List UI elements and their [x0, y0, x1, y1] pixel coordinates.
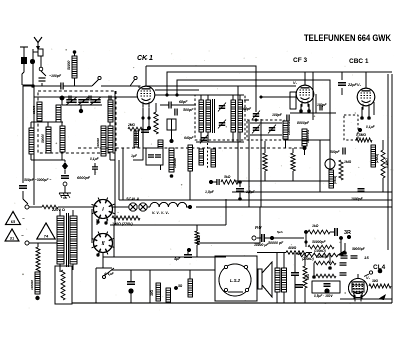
fuse resistor — [42, 205, 58, 209]
wire det down — [304, 146, 306, 155]
resistor 100k CL4a — [314, 255, 336, 265]
svg-text:50000 pF: 50000 pF — [268, 241, 284, 245]
label 0.4uF — [90, 157, 100, 175]
wire x150 bottom — [149, 270, 151, 303]
node CL4 b — [312, 275, 316, 279]
node below grid cap — [170, 139, 174, 143]
resistor CL4 b — [316, 274, 336, 278]
arrow CL4 — [378, 294, 386, 300]
node 1.5uF — [238, 180, 242, 201]
svg-text:500pF: 500pF — [330, 150, 341, 154]
scale lamp 2 — [139, 203, 147, 211]
label 0.5uF — [314, 294, 333, 298]
LS2 terminal a — [224, 265, 227, 268]
wire x115 tuner drop — [114, 91, 116, 160]
wire CF3 grid — [260, 92, 297, 109]
cap OPT b — [295, 285, 303, 287]
resistor 5k right — [329, 170, 337, 188]
node CK1 cathode — [147, 126, 151, 130]
node midb — [170, 174, 174, 178]
wire lamp mid — [147, 206, 150, 208]
wire 68pF leads — [160, 104, 196, 106]
wire CK1 bottom mesh — [133, 138, 143, 160]
node trimmer junction — [79, 105, 83, 113]
title TELEFUNKEN 664GWK — [304, 33, 391, 43]
loop left wire — [114, 91, 123, 257]
svg-text:(200kΩ): (200kΩ) — [302, 257, 314, 261]
svg-text:50000: 50000 — [32, 105, 36, 114]
svg-text:L.S.2: L.S.2 — [230, 278, 241, 283]
wire vertical x249 — [248, 120, 250, 207]
node antenna blob — [30, 59, 35, 64]
heater chain coil — [150, 202, 187, 207]
osc trimmer — [200, 135, 208, 144]
wire bottom y270 — [112, 269, 150, 271]
tuner coil R top — [108, 100, 113, 122]
cap 1.5uF a — [205, 189, 256, 194]
series cap 100pF — [61, 83, 63, 90]
svg-text:5kΩ: 5kΩ — [224, 175, 231, 179]
resistor 2M vertical — [371, 145, 379, 167]
label V4 — [366, 276, 371, 280]
svg-text:5μA: 5μA — [277, 230, 283, 234]
svg-text:~: ~ — [22, 216, 25, 221]
rail y200 main — [119, 199, 392, 201]
svg-text:3R: 3R — [344, 230, 351, 236]
IF2 dashed box — [247, 120, 284, 140]
paper speckle texture — [11, 46, 396, 311]
node tuner blob — [60, 96, 65, 101]
wire det coil leads — [285, 139, 287, 148]
wire IF1 top leads — [201, 95, 240, 100]
LS2 terminal b — [244, 265, 247, 268]
label 220V — [51, 208, 65, 212]
bottom bus y303 — [72, 302, 392, 304]
padder cap 6000pF — [61, 176, 91, 180]
wafer switch I — [91, 197, 114, 220]
cap 68pF — [169, 100, 188, 109]
node mixer diamond — [62, 160, 68, 170]
trimmer 68pF mid — [243, 107, 260, 120]
detector coil 150000 — [283, 121, 291, 139]
PU terminal — [252, 236, 256, 240]
IF1 secondary winding — [206, 100, 211, 132]
wire IF1 to CF3 grid — [244, 99, 249, 101]
svg-text:1MΩ: 1MΩ — [344, 160, 352, 164]
switch diag bottom — [103, 268, 115, 279]
label 50000pF spk — [268, 241, 284, 245]
power transformer secondary — [70, 216, 77, 264]
warning triangle 74 — [37, 223, 55, 239]
node bottom — [174, 286, 178, 290]
resistor 200k row — [298, 253, 338, 261]
osc pack winding A — [188, 145, 193, 171]
node det — [303, 146, 307, 150]
rect resistor 1k — [195, 225, 201, 257]
wire L4 bottom — [61, 152, 63, 160]
wire OPT leads — [277, 253, 284, 303]
speaker cone horn — [262, 262, 272, 297]
cap 4uF — [173, 248, 192, 261]
wire IF2 rail — [250, 123, 282, 135]
svg-text:50000pF: 50000pF — [312, 240, 326, 244]
label 50000pF row — [352, 247, 366, 251]
label 3R — [344, 230, 351, 236]
wire mains to switch — [58, 206, 93, 208]
label 0,1uF — [366, 125, 376, 129]
svg-text:30Ω: 30Ω — [372, 279, 379, 283]
svg-text:V₁ V₂ V₃ V₄: V₁ V₂ V₃ V₄ — [152, 211, 170, 215]
label 2xx — [277, 230, 283, 234]
svg-text:500000Ω: 500000Ω — [306, 129, 310, 143]
svg-text:V₄: V₄ — [366, 276, 371, 280]
wire diamond to cap — [64, 170, 66, 174]
wire L2 bottom — [31, 154, 65, 160]
cap 500pF — [175, 108, 194, 116]
IF1 trimmer top — [218, 103, 226, 112]
node PU — [264, 236, 274, 240]
resistor 0.5M right — [356, 133, 372, 142]
IF1 primary winding — [199, 100, 204, 132]
resistor CL4 out — [369, 279, 391, 288]
osc pack winding B — [199, 149, 204, 165]
loop top wire — [110, 224, 226, 226]
power transformer primary — [57, 216, 64, 264]
label 100pF — [49, 74, 62, 78]
svg-text:SCALA: SCALA — [126, 197, 139, 201]
ballast box — [55, 266, 72, 304]
cap row a — [341, 256, 348, 258]
node right a — [358, 128, 362, 132]
svg-text:2MΩ: 2MΩ — [127, 123, 135, 127]
speaker cone bar — [258, 269, 262, 289]
svg-text:50000pF: 50000pF — [316, 255, 330, 259]
trimmer pair B — [78, 97, 89, 105]
dropper wire zig — [36, 243, 40, 272]
wire x119 drop — [118, 160, 120, 200]
svg-text:0,5μF · 150V: 0,5μF · 150V — [314, 294, 333, 298]
label V1 — [138, 85, 143, 89]
svg-text:P.U: P.U — [255, 225, 262, 230]
node x261 top — [255, 119, 258, 122]
electrolytic 1 — [127, 270, 135, 303]
grid bus y86 — [34, 85, 140, 87]
resistor 4k mid — [263, 141, 267, 181]
cap 100000 CK1 — [141, 130, 149, 132]
wire mains upper — [29, 206, 42, 208]
svg-text:1μF: 1μF — [131, 154, 138, 158]
svg-text:TELEFUNKEN 664 GWK: TELEFUNKEN 664 GWK — [304, 33, 391, 43]
tube CL4 envelope — [349, 279, 368, 302]
svg-text:~: ~ — [21, 233, 24, 238]
cap 3R — [330, 228, 337, 236]
svg-text:0.4MΩ: 0.4MΩ — [385, 158, 389, 168]
svg-text:0,1μF: 0,1μF — [366, 125, 376, 129]
svg-text:6000pF: 6000pF — [77, 176, 91, 180]
wire lamp feeder — [112, 206, 129, 208]
label 500pF 3000pF — [24, 178, 51, 182]
svg-text:4kΩ: 4kΩ — [306, 273, 310, 281]
resistor bottom right — [188, 279, 193, 297]
resistor 100k 3R — [308, 245, 334, 253]
wire x313 drop — [312, 72, 314, 120]
svg-text:8000pF: 8000pF — [297, 121, 310, 125]
resistor 1k 3R — [308, 224, 330, 234]
resistor 400 row — [257, 246, 312, 254]
trimmer pair C — [90, 97, 101, 105]
tube CF3 envelope — [296, 85, 314, 107]
svg-text:CBC 1: CBC 1 — [349, 58, 369, 65]
wire 22pF leads — [342, 72, 366, 95]
label 480pF — [317, 103, 328, 111]
IF2 trimmer A — [252, 125, 260, 134]
resistor 2M CK1 — [127, 123, 144, 131]
label SCALA — [126, 197, 139, 201]
svg-text:68pF: 68pF — [243, 107, 252, 111]
osc coil 20000 — [158, 140, 163, 170]
svg-text:50000: 50000 — [67, 60, 71, 70]
svg-text:CK 1: CK 1 — [137, 55, 153, 62]
wire grid line to CK1 — [34, 96, 137, 98]
cap CL4 b — [340, 273, 347, 275]
resistor 1M right — [339, 160, 352, 180]
svg-text:400Ω: 400Ω — [287, 246, 297, 250]
resistor right col — [381, 140, 385, 192]
loop right wire — [225, 199, 227, 225]
scale lamp 1 — [129, 203, 137, 211]
wire bottom left rise — [95, 268, 97, 303]
svg-text:74: 74 — [44, 234, 49, 239]
wire right edge — [391, 74, 393, 303]
warning triangle 31 — [5, 229, 24, 241]
grid cap box — [167, 119, 176, 130]
svg-text:65: 65 — [11, 219, 16, 224]
svg-text:1,5μF: 1,5μF — [205, 190, 215, 194]
tuner dashed enclosure — [38, 91, 116, 153]
tube CK1 envelope — [137, 86, 155, 108]
LS2 terminal d — [245, 288, 248, 291]
label 8000pF — [297, 121, 310, 125]
LS2 terminal c — [224, 288, 227, 291]
wire left cap down — [23, 191, 28, 204]
wire B feed — [197, 207, 260, 243]
wire coil to bus — [73, 50, 77, 86]
antenna Y — [34, 37, 42, 50]
wire CF3 topcap — [304, 72, 306, 85]
mains terminal lower — [25, 241, 29, 245]
svg-text:4μF: 4μF — [173, 257, 181, 261]
wire IF1 link — [196, 94, 244, 96]
wire wafer II down — [102, 253, 104, 268]
wire transformer top leads — [60, 210, 73, 216]
label CL4 — [373, 264, 386, 271]
wire y120 horiz — [196, 119, 247, 121]
svg-text:0.5MΩ: 0.5MΩ — [356, 133, 366, 137]
wire x349 — [348, 237, 350, 253]
output transformer primary — [275, 268, 280, 292]
resistor 50000 mid — [134, 131, 139, 147]
tuner coil L2 — [29, 128, 34, 154]
loop bottom wire — [103, 256, 226, 258]
wire y86 mid — [155, 89, 199, 91]
svg-text:500pF: 500pF — [183, 108, 194, 112]
electrolytic CL4 — [324, 284, 331, 294]
antenna coil 50000 — [67, 56, 77, 78]
svg-text:150000Ω: 150000Ω — [287, 121, 291, 135]
band switch a — [92, 76, 101, 86]
wire left feeder A — [22, 86, 24, 183]
svg-text:1kΩ: 1kΩ — [197, 235, 201, 242]
label V1V2V3V4 — [152, 211, 170, 215]
wire y155 link — [261, 154, 293, 156]
label 4+1uF — [103, 272, 115, 276]
rail y181 — [235, 180, 330, 182]
svg-text:30Ω: 30Ω — [150, 289, 154, 296]
svg-text:5Ω: 5Ω — [178, 284, 183, 288]
svg-text:1kΩ: 1kΩ — [312, 224, 319, 228]
wire vertical x261 — [260, 119, 262, 207]
tuner coil L1 — [32, 102, 42, 121]
IF1 trimmer bottom — [218, 120, 226, 129]
arrow row 255 — [337, 250, 345, 256]
wire right edge inner — [387, 74, 389, 250]
osc pack winding C — [211, 149, 216, 167]
mains terminal upper — [25, 205, 29, 209]
wire L5 leads — [110, 122, 115, 160]
label 0.4M — [385, 158, 389, 168]
osc pack dashes — [190, 143, 208, 200]
wire bus y66 — [146, 66, 256, 112]
svg-text:50000: 50000 — [41, 134, 45, 143]
cathode resistor CK1 — [154, 103, 158, 134]
wire CK1 anode to IF1 — [155, 94, 199, 96]
resistor 30ohm bottom — [150, 283, 161, 301]
rail y192 — [232, 191, 392, 193]
node 3R right — [339, 236, 343, 253]
label 1S — [364, 255, 369, 260]
svg-text:V₃: V₃ — [357, 83, 362, 87]
wire transformer bottom leads — [60, 264, 73, 272]
CL4 switch — [358, 269, 382, 279]
speaker frame box — [215, 256, 257, 301]
dropper resistor 100000 — [30, 272, 40, 294]
rail y207 — [196, 206, 392, 208]
wire PU to 3R — [274, 232, 306, 247]
wire CBC1 pins — [360, 102, 374, 120]
wire bottom y268 — [96, 267, 112, 269]
label 1000pF — [351, 197, 364, 201]
svg-text:~100pF: ~100pF — [49, 74, 62, 78]
antenna trim cap — [39, 78, 46, 86]
wire mains lower — [29, 242, 57, 244]
cap CL4 a — [340, 263, 347, 265]
cap row b — [351, 256, 358, 258]
label 50000pF 3R — [312, 240, 326, 244]
tuner coil L3 — [41, 127, 51, 153]
label PU — [255, 225, 262, 230]
tuner coil L5 — [103, 126, 113, 152]
svg-text:(5kΩ): (5kΩ) — [333, 176, 337, 184]
grid box CL4 — [312, 281, 340, 293]
node 3R left — [304, 230, 308, 234]
node dropper end — [35, 296, 39, 300]
power transformer core — [67, 213, 69, 267]
wire bus y80 — [175, 80, 330, 159]
wire grid cap down — [171, 130, 173, 140]
svg-text:CF 3: CF 3 — [293, 57, 307, 64]
wire coil tops — [31, 122, 63, 128]
label tube CK1 — [137, 55, 153, 62]
svg-text:31: 31 — [10, 236, 15, 241]
wire trimmer rail — [62, 97, 102, 105]
IF1 dashed box — [195, 95, 245, 140]
wire mesh links — [136, 131, 146, 144]
tuner coil L1b — [56, 105, 61, 122]
wire top bus left — [22, 84, 34, 86]
node CL4 a — [328, 266, 332, 270]
wire x345 drop — [314, 243, 347, 277]
cap 500pF right — [330, 148, 345, 155]
svg-text:68pF: 68pF — [179, 100, 188, 104]
svg-text:100pF: 100pF — [272, 113, 283, 117]
cap OPT a — [291, 253, 299, 303]
label 640pF — [184, 136, 195, 140]
resistor OPT 4k — [303, 253, 310, 303]
ground main tuner — [59, 186, 71, 198]
node antenna bus — [31, 84, 35, 88]
cap right mid — [358, 189, 365, 191]
IF1 winding pair B — [231, 100, 243, 132]
cap 22pF — [338, 83, 358, 87]
svg-text:180pF: 180pF — [317, 103, 328, 107]
wire IF1 bottom — [196, 132, 244, 142]
tube CBC1 envelope — [357, 88, 375, 110]
label V2 — [293, 81, 298, 85]
wire bottom y270b — [150, 269, 215, 271]
cap 100pF CF3 — [272, 113, 289, 122]
svg-text:100000: 100000 — [173, 158, 177, 168]
ballast element — [61, 270, 65, 300]
svg-text:1S: 1S — [364, 255, 369, 260]
svg-text:50000pF: 50000pF — [352, 247, 366, 251]
wire x171 down — [171, 130, 173, 148]
band switch b — [130, 76, 137, 86]
wire bus y72 — [165, 72, 392, 97]
svg-text:(100kΩ): (100kΩ) — [314, 249, 326, 253]
dashed box right — [344, 115, 358, 140]
svg-text:500pF ~3000pF ~: 500pF ~3000pF ~ — [24, 178, 51, 182]
wire bus y86 — [146, 86, 296, 182]
paper bottom edge — [2, 46, 398, 313]
node 3R low — [304, 240, 307, 243]
resistor 100k mid — [291, 148, 295, 181]
node CK1 mesh — [134, 142, 138, 146]
PU cap — [257, 234, 264, 242]
label 1uF — [131, 154, 138, 158]
svg-text:V₂: V₂ — [293, 81, 298, 85]
svg-text:1,5μF: 1,5μF — [246, 190, 256, 194]
tuner gang dashed link — [78, 147, 306, 149]
resistor 100ohm scale — [112, 216, 140, 226]
node row — [347, 235, 351, 239]
wire bottom links — [158, 270, 190, 283]
bottom choke — [166, 288, 171, 302]
antenna switch — [33, 56, 46, 86]
tuner coil L4 — [60, 126, 65, 152]
label tube CF3 — [293, 57, 307, 64]
wire y120 link — [195, 120, 197, 140]
svg-text:100000: 100000 — [96, 138, 100, 148]
